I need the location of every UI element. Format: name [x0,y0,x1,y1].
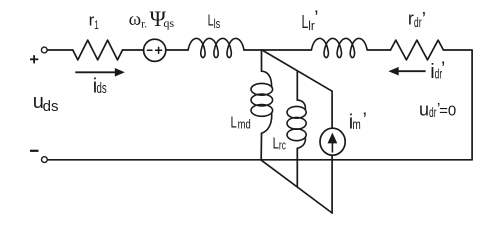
resistor rdr' [391,40,444,60]
current source im' [320,128,345,155]
svg-text:udr’=0: udr’=0 [419,99,456,120]
inductor Lrc [287,100,306,148]
svg-text:Lmd: Lmd [231,114,251,131]
wire bottom [48,159,472,161]
terminal bottom-left (-) [42,157,48,163]
arrow idr' [398,70,426,72]
plus sign (left top) [30,58,38,60]
inductor Lmd [251,71,273,133]
arrow ids [75,71,116,73]
wire bottom slant [261,160,332,213]
wire slant to Lrc [296,71,298,100]
voltage source U1 (wr.Psi_qs) [144,39,166,61]
wire top slant (node A to im' branch) [262,50,332,91]
wire Lls to Llr' (through node A) [244,49,311,51]
svg-text:im’: im’ [349,110,367,134]
wire node A down to Lmd [261,50,263,71]
wire terminal to r1 [48,49,73,51]
svg-text:rdr’: rdr’ [408,9,426,31]
svg-text:uds: uds [33,91,59,115]
resistor r1 [73,40,123,60]
svg-text:idr’: idr’ [430,59,445,83]
wire top-right corner and right side [443,50,472,160]
svg-text:Llr’: Llr’ [302,8,319,33]
arrow im' (inside source) [331,143,333,153]
wire Lrc to bottom slant [296,148,298,186]
svg-text:ids: ids [93,76,107,98]
svg-text:Lls: Lls [208,12,221,31]
svg-text:r1: r1 [89,10,99,31]
svg-text:Lrc: Lrc [273,135,287,152]
wire im' branch bottom [331,155,333,213]
wire r1 to source [123,49,144,51]
inductor Lls [188,38,244,57]
wire Lmd to bottom wire [260,133,262,160]
wire Llr' to rdr' [367,49,390,51]
wire source to Lls [166,49,188,51]
svg-text:ωr.Ψqs: ωr.Ψqs [129,6,175,31]
inductor Llr' [311,38,367,57]
wire im' branch top [331,91,333,128]
terminal top-left (+) [41,47,47,53]
minus sign (left bottom) [30,150,39,152]
